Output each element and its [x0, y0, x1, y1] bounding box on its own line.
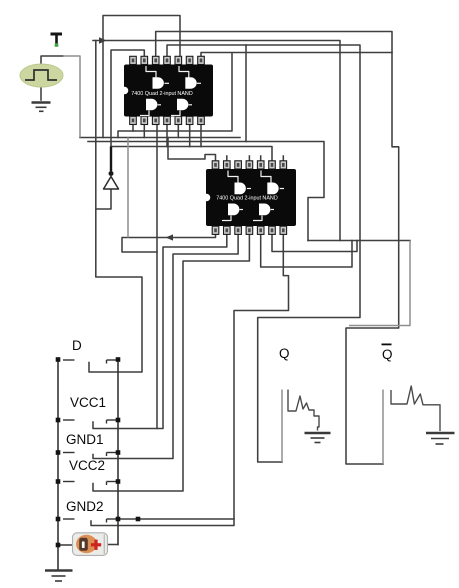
svg-text:7400 Quad 2-input NAND: 7400 Quad 2-input NAND — [216, 196, 278, 202]
svg-text:Q: Q — [279, 346, 290, 361]
svg-text:GND2: GND2 — [66, 499, 104, 514]
svg-text:GND1: GND1 — [66, 432, 104, 447]
svg-text:D: D — [72, 338, 82, 353]
svg-text:VCC2: VCC2 — [69, 458, 105, 473]
svg-text:7400 Quad 2-input NAND: 7400 Quad 2-input NAND — [131, 91, 193, 97]
svg-text:Q: Q — [382, 347, 393, 362]
svg-text:VCC1: VCC1 — [70, 395, 106, 410]
